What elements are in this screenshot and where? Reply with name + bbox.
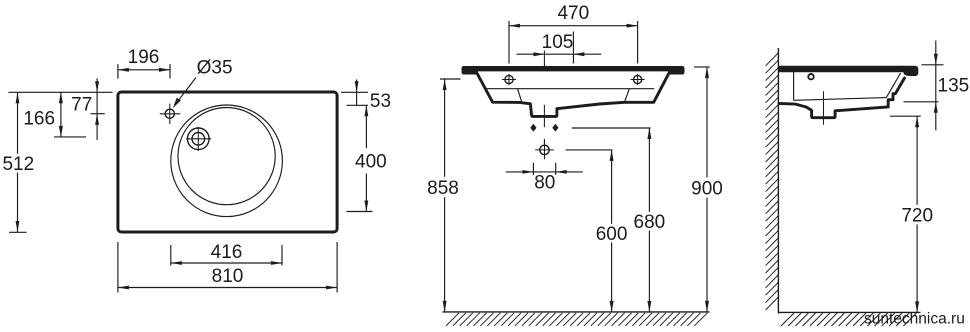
front view: basin outline — [477, 74, 669, 117]
label Ø35 with leader arrow — [173, 58, 233, 108]
dimension 858 (rim underside height) — [427, 79, 460, 312]
svg-text:900: 900 — [691, 178, 723, 199]
side view: faucet hole — [808, 74, 813, 79]
dimension 196 (left edge to faucet hole) — [118, 47, 170, 78]
front view: supply connection diamonds — [530, 124, 536, 132]
dimension 416 (bowl width) — [171, 242, 282, 266]
dimension 53 (top edge to bowl) — [341, 80, 391, 113]
front view: right faucet hole symbol — [631, 74, 645, 85]
front view: rim bar — [462, 66, 685, 75]
side view: wall hatching — [766, 53, 779, 310]
svg-text:512: 512 — [2, 154, 34, 175]
svg-text:680: 680 — [634, 212, 666, 233]
side view: inner front wall — [886, 73, 900, 98]
side view: drain centre line — [823, 91, 825, 124]
svg-text:166: 166 — [23, 108, 55, 129]
front view: ground hatching — [446, 313, 707, 326]
svg-text:600: 600 — [596, 224, 628, 245]
side view: wall line — [777, 48, 779, 313]
dimension 77 (top edge to faucet hole centre) — [71, 78, 105, 140]
front view: inner bowl wall left — [518, 89, 522, 103]
svg-text:Ø35: Ø35 — [197, 58, 233, 79]
svg-text:416: 416 — [211, 242, 243, 263]
dimension 900 (rim top height) — [691, 67, 723, 312]
top view: drain with crosshair — [186, 127, 211, 151]
svg-text:720: 720 — [901, 206, 933, 227]
front view: drain outlet crosshair — [535, 141, 554, 160]
dimension 135 (rim to underside) — [904, 41, 970, 131]
dimension 810 (overall width) — [118, 242, 337, 293]
dimension 470 (faucet hole spacing) — [509, 3, 638, 64]
dimension 166 (top edge to drain centre) — [23, 92, 86, 137]
svg-text:53: 53 — [370, 91, 391, 112]
top view: countertop outline — [118, 92, 337, 232]
svg-text:135: 135 — [938, 76, 970, 97]
svg-text:80: 80 — [534, 172, 555, 193]
dimension 105 (centre to hole offset) — [517, 32, 602, 64]
front view: inner rim line — [485, 88, 654, 90]
side view: inner back wall — [793, 72, 795, 100]
svg-text:400: 400 — [355, 152, 387, 173]
svg-text:810: 810 — [212, 266, 244, 287]
dimension 80 (supply spacing) — [506, 163, 583, 194]
dimension 720 (underside of basin to floor) — [890, 116, 933, 312]
side view: body outline — [779, 78, 905, 118]
svg-text:858: 858 — [427, 178, 459, 199]
front view: ground line — [443, 311, 710, 313]
top view: bowl inner circle — [178, 108, 275, 205]
front view: left faucet hole symbol — [502, 74, 516, 85]
top view: faucet hole Ø35 with crosshair — [160, 104, 181, 125]
side view: rim bar — [778, 66, 903, 73]
dimension 680 (supply height) — [572, 128, 666, 312]
side view: inner bottom — [794, 98, 887, 101]
front view: inner bowl wall right — [625, 89, 630, 103]
side view: front lip end cap — [902, 66, 918, 76]
svg-text:105: 105 — [542, 32, 574, 53]
front view: centre line — [543, 51, 545, 147]
dimension 400 (bowl depth extent) — [347, 105, 387, 211]
svg-text:77: 77 — [71, 95, 92, 116]
extension line from top-left corner — [9, 91, 113, 93]
side view: ground hatching — [781, 313, 916, 326]
svg-text:196: 196 — [128, 47, 160, 68]
svg-text:suntechnica.ru: suntechnica.ru — [864, 311, 965, 328]
svg-text:470: 470 — [557, 3, 589, 24]
dimension 600 (drain height) — [566, 150, 628, 312]
side view: ground line — [778, 311, 920, 313]
dimension 512 (overall depth) — [2, 92, 34, 232]
top view: bowl outer circle — [171, 105, 283, 217]
